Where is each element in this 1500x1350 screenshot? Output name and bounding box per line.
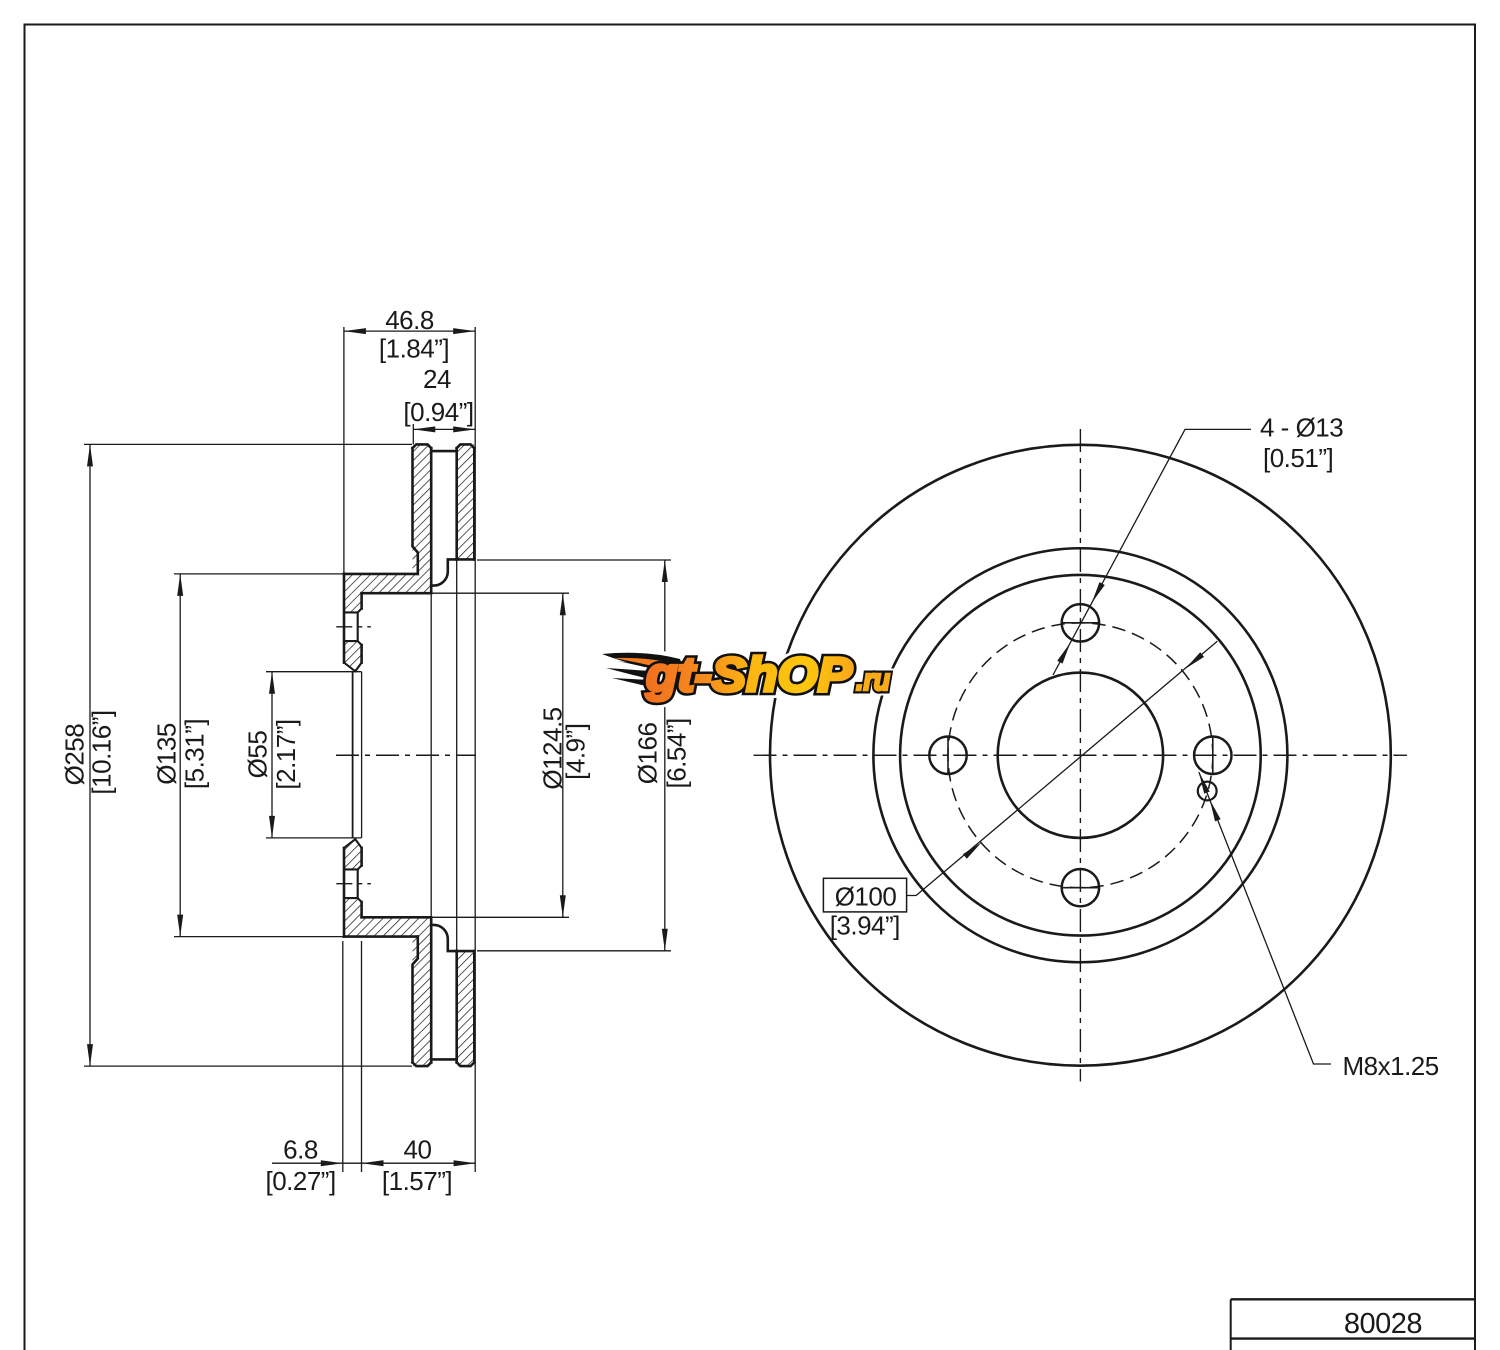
rotor cross-section hatched metal: left friction plate + hat band — [344, 444, 431, 593]
svg-text:[0.51”]: [0.51”] — [1263, 443, 1333, 473]
hub wall upper segment (bottom half) — [344, 898, 362, 917]
svg-text:[2.17”]: [2.17”] — [271, 719, 301, 789]
hub wall lower segment (below bolt hole, top half) — [344, 641, 362, 671]
svg-text:40: 40 — [404, 1135, 432, 1165]
right plate inner end faces — [457, 558, 475, 561]
hub wall lower segment (bottom half) — [344, 839, 362, 869]
svg-text:[6.54”]: [6.54”] — [662, 718, 692, 788]
svg-text:[1.57”]: [1.57”] — [382, 1166, 452, 1196]
leader 4-O13 to top bolt hole — [1053, 429, 1251, 675]
left plate outer face with step (bottom half) — [413, 937, 418, 1063]
thick outline edges of rotor section — [344, 444, 474, 1066]
vent slot top edge — [431, 450, 457, 453]
svg-text:[4.9”]: [4.9”] — [561, 724, 591, 780]
boxed label O100 — [823, 878, 906, 912]
dimension arrowheads — [87, 444, 93, 466]
hub details: bolt holes and bore chamfers — [344, 609, 362, 903]
hub back face segments — [360, 593, 363, 608]
M8 set-screw hole — [1198, 782, 1217, 801]
svg-text:[0.94”]: [0.94”] — [403, 397, 473, 427]
svg-text:6.8: 6.8 — [283, 1135, 318, 1165]
hub wall upper segment (above bolt hole) — [344, 593, 362, 612]
title block — [1231, 1299, 1475, 1350]
svg-text:46.8: 46.8 — [385, 305, 434, 335]
wheel bolt hole (bottom half) — [344, 869, 358, 898]
left plate inner wall (top/bottom) — [430, 448, 433, 593]
svg-text:[10.16”]: [10.16”] — [87, 710, 117, 794]
left friction plate + hat band (bottom half) — [344, 917, 431, 1066]
svg-text:Ø166: Ø166 — [633, 723, 663, 785]
friction band inner circle — [873, 548, 1287, 962]
thin projection lines through section opening — [431, 559, 457, 951]
bolt circle (dashed) — [948, 623, 1213, 888]
svg-text:4 - Ø13: 4 - Ø13 — [1260, 413, 1343, 443]
svg-text:[3.94”]: [3.94”] — [830, 911, 900, 941]
hat cylinder top band edges — [344, 573, 418, 576]
gt-shop.ru watermark logo: speed wedge halo — [602, 652, 690, 686]
svg-text:24: 24 — [423, 364, 451, 394]
centre bore chamfers (bottom) — [344, 839, 362, 848]
hub mounting face — [343, 574, 346, 663]
right friction plate (bottom half) — [457, 951, 475, 1066]
svg-text:Ø135: Ø135 — [152, 723, 182, 785]
wheel bolt hole left — [929, 737, 966, 774]
right plate inner wall (top/bottom) — [455, 448, 458, 559]
svg-text:[1.84”]: [1.84”] — [379, 334, 449, 364]
right plate outer face — [473, 448, 476, 559]
centre bore chamfers (top) — [344, 663, 362, 672]
dimension lines — [90, 331, 665, 1163]
svg-text:Ø55: Ø55 — [243, 731, 273, 779]
vent slot bottom step and fillet (top half) — [431, 559, 457, 585]
vent slot bottom edge — [431, 1058, 457, 1061]
vent slot bottom step and fillet (bottom half) — [431, 925, 457, 951]
hat cylinder bottom band edges — [344, 935, 418, 938]
left plate outer face with step (top half) — [413, 448, 418, 574]
hat outer circle — [900, 575, 1261, 936]
svg-text:80028: 80028 — [1344, 1308, 1422, 1340]
disc outer face bottom edges with chamfers — [413, 1062, 432, 1066]
wheel bolt hole bottom — [1062, 869, 1099, 906]
svg-text:.ru: .ru — [856, 662, 890, 697]
gt-shop.ru watermark logo: black speed wedge with orange flame — [602, 653, 686, 676]
wheel bolt hole top — [1062, 604, 1099, 641]
right friction plate (top half) — [457, 444, 475, 559]
svg-text:[5.31”]: [5.31”] — [180, 719, 210, 789]
bolt hole centerlines in section — [336, 626, 371, 628]
centre bore circle — [998, 673, 1163, 838]
bolt circle diameter dimension line — [907, 641, 1218, 895]
vertical centerline — [1079, 429, 1081, 1082]
svg-text:[0.27”]: [0.27”] — [265, 1166, 335, 1196]
disc outer circle — [770, 445, 1391, 1066]
disc outer face top edges with corner chamfers — [413, 444, 432, 448]
wheel bolt hole right — [1194, 737, 1231, 774]
svg-text:Ø258: Ø258 — [60, 724, 90, 786]
bolt hole cross ticks — [1061, 622, 1100, 624]
leader M8x1.25 to set-screw hole — [1199, 772, 1331, 1064]
section view axis centerline — [336, 754, 476, 756]
svg-text:Ø100: Ø100 — [835, 882, 897, 912]
dimension extension lines — [84, 327, 671, 1172]
svg-text:gt-ShOP: gt-ShOP — [645, 649, 853, 702]
horizontal centerline — [754, 754, 1408, 756]
wheel bolt hole (top half) — [344, 612, 358, 641]
svg-text:M8x1.25: M8x1.25 — [1343, 1051, 1439, 1081]
